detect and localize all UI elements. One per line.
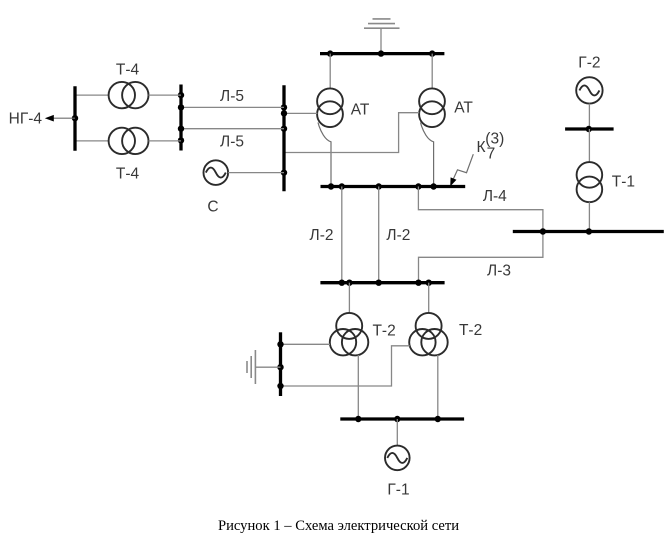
- junction dot: Л-2 line 2: [376, 183, 382, 189]
- svg-text:Л-2: Л-2: [310, 227, 334, 244]
- junction dot: НГ-4 feeder on bus A: [72, 115, 78, 121]
- wire: ground bus to Т-2 right (elbow): [281, 346, 410, 386]
- svg-text:Г-1: Г-1: [387, 481, 409, 498]
- wire: Г-1 to bus: [396, 419, 398, 446]
- arrowhead НГ-4: [45, 115, 54, 122]
- autotransformer AT (left): [317, 88, 343, 127]
- transformer Т-2 (right, three-winding): [409, 313, 448, 356]
- wire: line Л-4 elbow: [418, 187, 543, 232]
- busbar: middle MV bus: [321, 185, 466, 188]
- wire: bus A to T-4 top: [75, 94, 109, 96]
- generator C: [204, 160, 229, 185]
- wire: top bus to AT left: [329, 54, 331, 89]
- junction dot: Л-2 left on secondary bus: [339, 280, 345, 286]
- wire: line Л-2 (right): [378, 187, 380, 283]
- busbar: secondary MV bus: [320, 281, 444, 284]
- junction dot: AT right tap: [430, 183, 436, 189]
- wire: top bus to AT right: [431, 54, 433, 89]
- junction dot: AT left tap: [328, 183, 334, 189]
- wire: Т-2 left down to bottom bus: [357, 355, 359, 419]
- svg-text:С: С: [207, 199, 218, 216]
- transformer T-4 (top): [109, 82, 149, 108]
- wire: secondary bus to Т-2 right: [428, 283, 430, 313]
- junction dot: Л-2 right on secondary bus: [376, 280, 382, 286]
- junction dot: Т-2 right on Г-1 bus: [435, 416, 441, 422]
- busbar: Г-2 station bus: [565, 127, 614, 130]
- autotransformer AT (right): [419, 88, 445, 127]
- transformer Т-1: [577, 162, 603, 202]
- junction dot: Т-2 left top: [346, 280, 352, 286]
- junction dot: AT left top: [327, 50, 333, 56]
- ground (top): [364, 19, 400, 28]
- svg-text:Т-2: Т-2: [372, 323, 395, 340]
- junction dot: Т-1 on right bus: [586, 228, 592, 234]
- ground (lower left): [247, 350, 255, 384]
- wire: Т-2 right down to bottom bus: [437, 355, 439, 419]
- junction dot: Г-1 feeder: [394, 416, 400, 422]
- svg-text:Т-4: Т-4: [116, 62, 140, 79]
- svg-text:Т-4: Т-4: [116, 166, 140, 183]
- junction dot: Т-2 left neutral: [277, 341, 283, 347]
- svg-text:Т-1: Т-1: [612, 174, 635, 191]
- wire: НГ-4 feeder: [53, 117, 75, 119]
- wire: line Л-2 (left): [341, 187, 343, 283]
- wire: line Л-5 (upper): [181, 106, 284, 108]
- busbar: top HV bus: [320, 52, 444, 55]
- wire: generator C to bus C: [228, 172, 284, 174]
- junction dot: generator C wire on bus C: [281, 169, 287, 175]
- wire: T-4 bottom to bus B: [149, 140, 182, 142]
- wire: bus A to T-4 bottom: [75, 140, 109, 142]
- svg-text:Л-5: Л-5: [220, 134, 244, 151]
- junction dot: AT right top: [429, 50, 435, 56]
- junction dot: ground connection: [277, 364, 283, 370]
- junction dot: T-4 bottom wire on bus B: [178, 137, 184, 143]
- generator Г-2: [576, 77, 602, 103]
- svg-text:АТ: АТ: [351, 101, 370, 118]
- junction dot: Л-3 on secondary bus: [415, 280, 421, 286]
- junction dot: Л-5 line 2 on bus C: [281, 126, 287, 132]
- busbar: grounding bus (vertical): [279, 332, 282, 396]
- junction dot: T-4 top wire on bus B: [178, 92, 184, 98]
- svg-text:Л-4: Л-4: [483, 188, 507, 205]
- junction dot: Л-5 upper on bus B: [178, 104, 184, 110]
- wire: secondary bus to Т-2 left: [348, 283, 350, 313]
- wire: Т-1 to right bus: [588, 202, 590, 231]
- wire: line Л-3 elbow: [419, 232, 543, 283]
- junction dot: Г-2 bus: [586, 126, 592, 132]
- svg-text:Т-2: Т-2: [459, 322, 482, 339]
- svg-text:Л-5: Л-5: [220, 88, 244, 105]
- junction dot: ground stem on top bus: [378, 50, 384, 56]
- transformer T-4 (bottom): [109, 128, 149, 154]
- wire: fault arrow zigzag: [454, 154, 474, 178]
- junction dot: Л-4/Л-3 on right bus: [540, 228, 546, 234]
- junction dot: AT left LV wire on bus C: [281, 110, 287, 116]
- svg-text:К: К: [477, 139, 486, 156]
- junction dot: Л-4 tap: [415, 183, 421, 189]
- wire: AT right tap curve to middle bus: [421, 123, 434, 187]
- junction dot: Л-5 line 1 on bus C: [281, 104, 287, 110]
- junction dot: Л-2 line 1: [339, 183, 345, 189]
- wire: Г-2 to its bus: [588, 104, 590, 129]
- junction dot: Т-2 right neutral: [277, 383, 283, 389]
- transformer Т-2 (left, three-winding): [330, 313, 369, 356]
- svg-text:7: 7: [487, 146, 496, 163]
- arrowhead fault К7: [450, 177, 456, 186]
- wire: top ground stem: [380, 28, 382, 53]
- wire: T-4 top to bus B: [149, 94, 182, 96]
- wire: bus C to AT right (LV side, elbow): [284, 113, 419, 153]
- junction dot: Т-2 right top: [426, 280, 432, 286]
- busbar: right bus: [513, 230, 664, 233]
- wire: ground bus to Т-2 left: [281, 343, 331, 345]
- busbar: vertical bus C: [282, 85, 285, 191]
- busbar: vertical bus B: [179, 85, 182, 151]
- svg-text:АТ: АТ: [454, 100, 473, 117]
- wire: bus C to AT left (LV side): [284, 112, 317, 114]
- junction dot: Л-5 lower on bus B: [178, 126, 184, 132]
- svg-text:Л-3: Л-3: [487, 262, 511, 279]
- wire: line Л-5 (lower): [181, 128, 284, 130]
- svg-text:Г-2: Г-2: [578, 54, 600, 71]
- svg-text:НГ-4: НГ-4: [9, 110, 43, 127]
- wire: ground stem (lower left): [255, 366, 280, 368]
- svg-text:Л-2: Л-2: [386, 227, 410, 244]
- svg-text:Рисунок 1 – Схема электрическо: Рисунок 1 – Схема электрической сети: [218, 518, 459, 534]
- generator Г-1: [385, 446, 410, 471]
- busbar: vertical bus A: [73, 86, 76, 151]
- junction dot: Т-2 left on Г-1 bus: [355, 416, 361, 422]
- busbar: generator Г-1 bus: [340, 417, 464, 420]
- wire: AT left tap curve to middle bus: [318, 123, 331, 187]
- wire: Г-2 bus to Т-1: [588, 129, 590, 162]
